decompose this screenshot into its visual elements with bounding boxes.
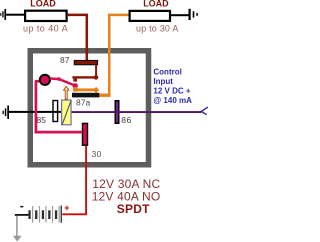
coil K1 <box>62 100 71 125</box>
contact 87a nub <box>73 87 78 92</box>
svg-text:86: 86 <box>121 115 131 125</box>
wire pink stub to pivot <box>35 80 41 83</box>
svg-text:Input: Input <box>153 77 173 86</box>
contact 87 dot <box>94 75 99 80</box>
wire gray battery - down <box>16 216 17 236</box>
terminal 30 <box>83 123 88 145</box>
contact 87 strip <box>72 76 97 78</box>
svg-text:30: 30 <box>92 149 102 159</box>
load L1 box <box>25 11 67 21</box>
wire orange elbow to 87a terminal bar <box>99 94 110 97</box>
wire orange load L2 to terminal 87a <box>109 15 128 97</box>
wire pink armature return to terminal 30 <box>36 81 82 132</box>
wire maroon load L1 to terminal 87 <box>68 15 87 60</box>
terminal 87 bar <box>74 61 97 65</box>
contact 87 link <box>95 65 97 76</box>
svg-text:SPDT: SPDT <box>117 202 150 216</box>
armature contact tip <box>73 83 78 88</box>
arrow coil actuation (up) <box>64 86 69 99</box>
wire control input (black) ground G3 to terminal 85 / coil <box>9 111 62 113</box>
svg-text:@ 140 mA: @ 140 mA <box>153 96 192 105</box>
ground G3 (control input return, left) <box>3 106 10 120</box>
battery B1 <box>15 206 69 223</box>
ground G1 (top left, load 1) <box>0 9 6 20</box>
svg-text:up to 40 A: up to 40 A <box>23 23 68 33</box>
contact 87 nub <box>73 79 77 82</box>
svg-text:up to 30 A: up to 30 A <box>136 23 179 33</box>
arrowhead control input <box>201 107 208 115</box>
armature joint dot <box>57 77 61 81</box>
wire purple coil to control input right edge <box>72 111 202 113</box>
svg-text:LOAD: LOAD <box>143 0 169 9</box>
wire red terminal 30 to battery + <box>62 146 86 214</box>
wire load L2 to ground G2 <box>171 14 189 16</box>
armature <box>50 79 75 86</box>
contact 87a strip <box>73 88 95 91</box>
terminal 85 <box>53 101 58 122</box>
relay case <box>30 51 148 165</box>
svg-text:87: 87 <box>60 55 70 65</box>
ground G2 (top right, load 2) <box>189 9 198 20</box>
load L2 box <box>130 11 170 21</box>
svg-text:85: 85 <box>37 115 47 125</box>
ground arrow (battery negative) <box>13 236 22 242</box>
terminal 86 <box>115 101 119 124</box>
pivot (armature hinge) <box>40 75 50 85</box>
label Control Input <box>153 68 192 106</box>
svg-text:Control: Control <box>153 68 181 77</box>
wire ground G1 to load L1 <box>6 14 25 16</box>
svg-text:12 V DC +: 12 V DC + <box>153 87 190 96</box>
svg-text:LOAD: LOAD <box>30 0 56 9</box>
contact 87a diamond tip <box>93 87 99 93</box>
svg-text:87a: 87a <box>76 97 90 107</box>
terminal 87a bar (black) <box>72 93 99 98</box>
